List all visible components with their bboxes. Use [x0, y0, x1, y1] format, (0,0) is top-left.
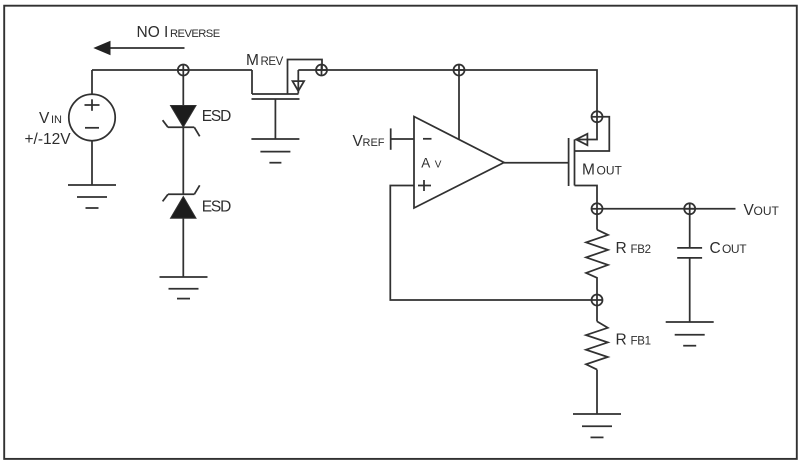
capacitor C1 COUT [677, 214, 702, 322]
svg-text:FB2: FB2 [631, 244, 651, 256]
svg-text:REVERSE: REVERSE [170, 28, 220, 40]
node N2 [316, 64, 328, 76]
wire VIN top rail to MREV source [92, 69, 252, 71]
label RFB2 [616, 240, 651, 257]
ground (COUT) [666, 322, 714, 346]
node N5 (VOUT node) [591, 203, 603, 215]
label VIN +/-12V [25, 110, 72, 148]
wire N3 to op-amp supply [458, 75, 460, 140]
wire D2 to ground [182, 218, 184, 277]
label VREF [353, 133, 385, 150]
svg-text:REV: REV [261, 56, 284, 68]
label NO I REVERSE [137, 24, 220, 41]
channel bar [252, 93, 299, 95]
node N4 [591, 111, 603, 123]
terminal VREF [391, 128, 414, 149]
node N3 [453, 64, 465, 76]
svg-text:NO I: NO I [137, 24, 169, 41]
svg-text:REF: REF [363, 137, 385, 149]
label RFB1 [616, 332, 651, 349]
source stub bottom [575, 186, 598, 204]
op-amp U1 AV [414, 117, 504, 209]
voltage source V1 VIN [69, 70, 115, 185]
label AV [421, 156, 442, 171]
wire N2 to N4 corner (top rail) [298, 70, 597, 112]
drain stub up and over to node N2 [288, 60, 323, 95]
svg-text:V: V [435, 159, 442, 170]
svg-text:R: R [616, 240, 627, 257]
wire op-amp output to MOUT gate [504, 162, 568, 164]
gate lead [274, 99, 276, 139]
ground (ESD branch) [160, 277, 208, 299]
wire feedback to op-amp + input [390, 186, 592, 301]
svg-text:A: A [421, 156, 430, 171]
ground (RFB1) [573, 414, 621, 437]
label MOUT [582, 162, 623, 179]
source stub [251, 70, 253, 94]
resistor R2 RFB1 [586, 305, 608, 414]
svg-text:R: R [616, 332, 627, 349]
wire VOUT rail [602, 208, 736, 210]
label MREV [246, 52, 284, 69]
diode D2 ESD (TVS, cathode up) [163, 185, 200, 218]
svg-text:M: M [582, 162, 595, 179]
transistor Q1 MREV [252, 60, 323, 140]
drain hook from node N4 right and down to channel [575, 117, 610, 151]
label COUT [710, 240, 748, 257]
gate bar [252, 98, 300, 100]
body arm with arrow [297, 70, 299, 94]
node N1 [177, 64, 189, 76]
svg-text:ESD: ESD [202, 108, 231, 125]
ground (VIN) [68, 185, 116, 208]
ground (MREV gate) [251, 139, 299, 163]
annotation arrow NO I REVERSE [93, 41, 184, 55]
node N6 (COUT tap) [684, 203, 696, 216]
resistor R1 RFB2 [586, 214, 608, 295]
channel bar [574, 140, 576, 186]
wire between ESD diodes [182, 127, 184, 194]
node N7 (feedback tap) [591, 294, 603, 306]
svg-text:+/-12V: +/-12V [25, 131, 72, 148]
gate bar [568, 138, 570, 186]
diode D1 ESD (TVS, cathode down) [163, 106, 200, 137]
svg-text:IN: IN [51, 114, 62, 126]
label VOUT [744, 202, 780, 219]
svg-text:ESD: ESD [202, 199, 231, 216]
svg-text:OUT: OUT [754, 204, 780, 218]
wire node N1 to ESD diode D1 [182, 75, 184, 106]
svg-text:V: V [39, 110, 50, 127]
svg-text:FB1: FB1 [631, 336, 651, 348]
svg-text:OUT: OUT [722, 242, 747, 256]
transistor Q2 MOUT [569, 117, 610, 204]
body arm with arrow from node N4 [576, 122, 598, 140]
svg-text:OUT: OUT [597, 164, 623, 178]
svg-text:M: M [246, 52, 259, 69]
svg-text:C: C [710, 240, 721, 257]
